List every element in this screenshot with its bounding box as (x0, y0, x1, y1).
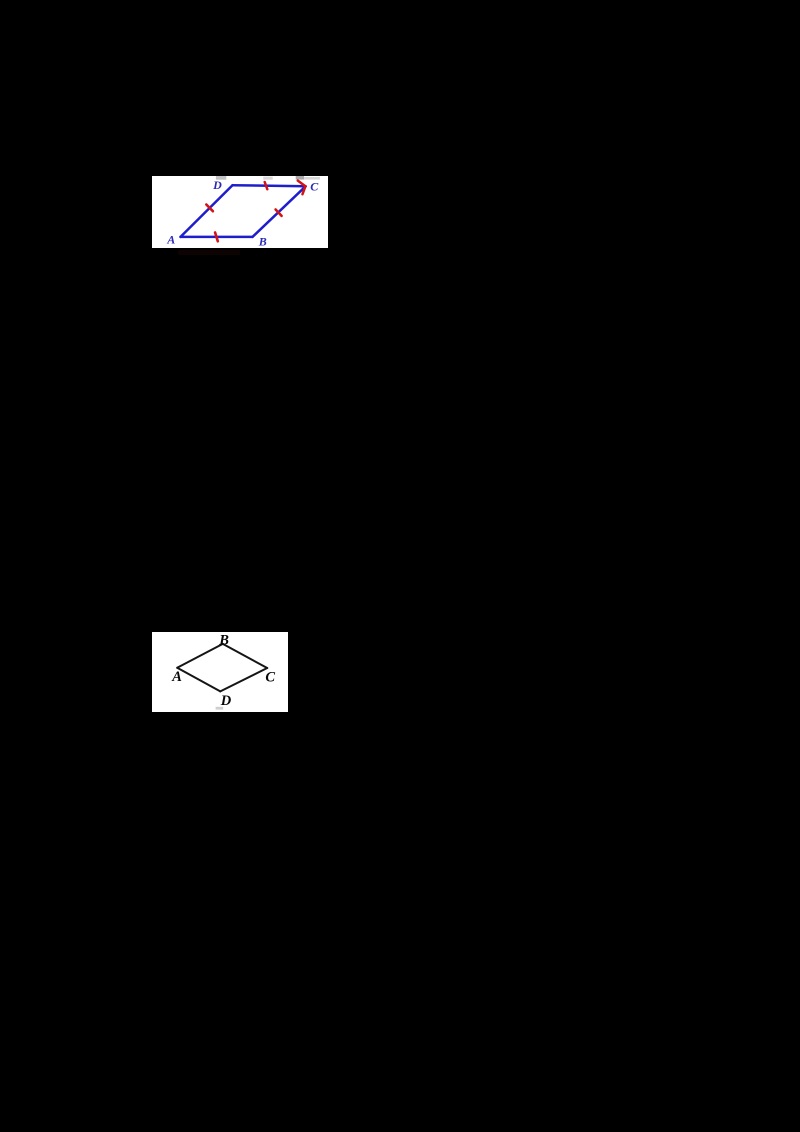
svg-text:B: B (258, 235, 267, 249)
tick mark on BC (276, 210, 282, 216)
figure panel 2 : black rhombus ABCD (152, 632, 288, 712)
tick mark on CD (265, 182, 268, 189)
tick mark on AB (215, 233, 218, 242)
svg-text:D: D (212, 178, 222, 192)
svg-text:D: D (220, 693, 232, 709)
svg-text:A: A (171, 669, 182, 685)
figure panel 1 : blue parallelogram ABCD (152, 176, 328, 248)
side DA (rhombus) (177, 668, 220, 692)
svg-text:A: A (166, 232, 175, 246)
clipped text remnant gray patch 1 (216, 176, 226, 180)
faint text remnant below panel 1 (178, 250, 240, 255)
svg-text:C: C (310, 179, 319, 193)
red arrow mark at C (298, 181, 306, 195)
side BC (253, 186, 306, 237)
side BC (rhombus) (223, 644, 267, 668)
clipped text remnant gray patch 4 (304, 177, 320, 180)
side CD (rhombus) (220, 668, 267, 691)
svg-text:C: C (265, 670, 275, 686)
side AB (rhombus) (177, 644, 223, 668)
side AB (181, 236, 253, 239)
clipped text remnant gray patch 3 (296, 176, 304, 180)
tick mark on DA (206, 205, 213, 212)
side CD (233, 185, 306, 186)
clipped text remnant gray patch 2 (263, 177, 272, 180)
side DA (181, 185, 233, 237)
gray smudge below D (216, 707, 224, 710)
svg-text:B: B (218, 632, 229, 648)
